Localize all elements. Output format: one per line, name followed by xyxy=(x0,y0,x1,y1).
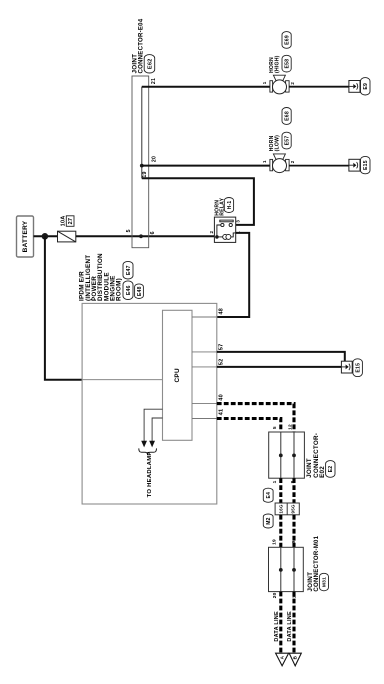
svg-text:9: 9 xyxy=(291,540,297,543)
horn relay H-1 box xyxy=(214,217,235,242)
label HORN (LOW) xyxy=(269,135,280,152)
svg-text:2: 2 xyxy=(209,230,214,233)
connector oval E15 xyxy=(361,156,371,173)
node E04 feed junction pin5-6 xyxy=(139,234,143,238)
wire battery to fuse xyxy=(34,235,58,237)
svg-text:CONNECTOR-E04: CONNECTOR-E04 xyxy=(139,18,145,73)
svg-text:(HIGH): (HIGH) xyxy=(274,55,280,73)
label IPDM E/R (INTELLIGENT POWER DISTRIBUTION MODULE ENGINE ROOM) xyxy=(79,253,123,301)
svg-text:19: 19 xyxy=(142,171,148,177)
svg-text:48: 48 xyxy=(218,308,224,315)
node relay pin2 junction xyxy=(215,235,219,239)
horn HIGH symbol xyxy=(270,75,289,94)
svg-text:12: 12 xyxy=(287,424,293,430)
svg-text:ROOM): ROOM) xyxy=(116,278,123,301)
brace to headlamp xyxy=(139,448,157,454)
node A off-page triangle xyxy=(276,653,289,666)
wire relay internal link xyxy=(217,225,221,237)
svg-text:95G: 95G xyxy=(291,504,296,513)
wire E02 to splice (CAN) 1 xyxy=(279,478,282,503)
svg-text:41: 41 xyxy=(218,409,224,416)
wire CPU to pin 52 xyxy=(192,366,217,368)
svg-text:A: A xyxy=(280,655,285,659)
svg-text:H-1: H-1 xyxy=(227,201,233,210)
wire CPU to pin 57 xyxy=(192,351,217,353)
wire splice to M01 (CAN) 1 xyxy=(279,515,282,548)
svg-text:21: 21 xyxy=(151,78,157,84)
svg-text:M2: M2 xyxy=(266,517,272,524)
label fuse number 27 xyxy=(66,216,74,227)
svg-text:E9: E9 xyxy=(363,83,369,90)
node E02 junction 1 xyxy=(279,454,283,458)
arrow to headlamp 1 xyxy=(141,441,147,448)
wire battery feed to IPDM xyxy=(45,236,82,379)
wire horn low to ground xyxy=(289,165,349,167)
svg-text:52: 52 xyxy=(218,359,224,366)
connector oval E62 xyxy=(144,55,155,73)
svg-text:(LOW): (LOW) xyxy=(274,135,280,152)
wire CPU to headlamp 1 xyxy=(144,409,162,441)
wire E02 internal 1 xyxy=(280,432,282,478)
svg-text:E15: E15 xyxy=(363,160,369,170)
wire E04 pin21 to horn high xyxy=(142,86,270,88)
relay contact bar xyxy=(220,220,233,222)
wire pin57 to ground xyxy=(217,352,345,367)
svg-text:E57: E57 xyxy=(284,136,290,146)
label HORN (HIGH) xyxy=(269,55,280,73)
connector oval E46 xyxy=(123,281,133,300)
wire M01 to data line A (CAN) xyxy=(279,592,282,654)
wire CPU to pin 41 xyxy=(192,418,217,420)
wire pin41 to E02 pin5 (CAN) xyxy=(217,419,281,433)
wire CPU to pin 48 xyxy=(192,316,217,318)
wire pin52 to ground xyxy=(217,366,342,368)
svg-text:2: 2 xyxy=(290,160,295,163)
label JOINT CONNECTOR-E02 xyxy=(306,433,326,478)
svg-text:E4: E4 xyxy=(266,492,272,499)
arrow to headlamp 2 xyxy=(149,441,155,448)
node M01 junction 2 xyxy=(292,568,296,572)
svg-text:1: 1 xyxy=(262,81,267,84)
svg-text:E48: E48 xyxy=(137,286,143,296)
svg-text:CPU: CPU xyxy=(174,368,181,382)
node battery junction xyxy=(42,233,49,240)
svg-text:CONNECTOR-M01: CONNECTOR-M01 xyxy=(314,535,320,591)
node B off-page triangle xyxy=(289,653,301,666)
svg-text:16G: 16G xyxy=(279,504,284,513)
connector oval H-1 xyxy=(224,198,233,213)
svg-text:6: 6 xyxy=(150,231,156,234)
svg-text:10A: 10A xyxy=(60,215,66,226)
connector oval E69 xyxy=(282,32,291,49)
node M01 junction 1 xyxy=(279,568,283,572)
node ground junction xyxy=(343,365,347,369)
svg-text:20: 20 xyxy=(272,592,278,598)
relay contact terminals xyxy=(221,223,233,226)
connector oval E15 IPDM ground xyxy=(353,359,363,377)
connector oval E48 xyxy=(135,284,144,299)
svg-text:E47: E47 xyxy=(126,265,132,275)
wire splice to M01 (CAN) 2 xyxy=(292,515,295,548)
wire E04 internal bus xyxy=(141,87,143,179)
svg-text:27: 27 xyxy=(68,218,74,225)
svg-text:E68: E68 xyxy=(284,111,290,121)
joint connector M01 box xyxy=(269,547,304,591)
svg-text:M31: M31 xyxy=(322,577,328,587)
connector oval E2 xyxy=(326,461,335,478)
svg-text:5: 5 xyxy=(126,229,132,232)
svg-text:57: 57 xyxy=(218,344,224,351)
joint connector E02 box xyxy=(269,432,305,478)
node E04 bus junction pin20 xyxy=(140,164,144,168)
connector oval E68 xyxy=(282,108,291,125)
wire horn high to ground xyxy=(289,86,349,88)
wire E02 internal 2 xyxy=(293,432,295,478)
wire CPU to pin 40 xyxy=(192,403,217,405)
fuse F 10A xyxy=(58,231,76,242)
relay coil xyxy=(217,233,236,240)
svg-text:E2: E2 xyxy=(328,466,334,473)
wire M01 to data line B (CAN) xyxy=(292,592,295,654)
svg-text:E15: E15 xyxy=(356,363,362,373)
connector oval E47 xyxy=(123,261,133,279)
svg-text:JOINT: JOINT xyxy=(306,458,313,478)
connector oval M2 xyxy=(263,514,273,528)
ground E15 IPDM xyxy=(341,361,352,373)
ground E9 xyxy=(349,81,360,93)
splice pin box 16G 95G xyxy=(275,503,299,515)
CPU box xyxy=(163,310,193,440)
wire M01 internal 2 xyxy=(293,547,295,591)
connector oval E57 xyxy=(282,132,291,149)
label JOINT CONNECTOR-M01 xyxy=(307,535,320,591)
horn LOW symbol xyxy=(270,154,289,173)
svg-text:3: 3 xyxy=(236,220,241,223)
wire relay pin1 to IPDM pin48 xyxy=(217,233,249,317)
node E02 junction 2 xyxy=(292,454,296,458)
svg-text:E69: E69 xyxy=(284,35,290,45)
svg-text:DATA LINE: DATA LINE xyxy=(287,611,293,642)
svg-text:B: B xyxy=(293,655,298,659)
wire M01 internal 1 xyxy=(280,547,282,591)
svg-text:2: 2 xyxy=(290,82,295,85)
connector oval E4 xyxy=(263,488,273,502)
wire CPU to headlamp 2 xyxy=(152,418,162,441)
svg-text:E62: E62 xyxy=(148,58,154,69)
wire E02 to splice (CAN) 2 xyxy=(292,478,295,503)
IPDM E/R box xyxy=(82,303,217,504)
wire E04 pin20 to horn low xyxy=(142,165,270,167)
battery xyxy=(17,216,34,257)
svg-text:19: 19 xyxy=(272,539,278,545)
svg-text:40: 40 xyxy=(218,394,224,401)
svg-text:BATTERY: BATTERY xyxy=(22,220,29,252)
label JOINT CONNECTOR-E04 xyxy=(131,18,144,73)
svg-text:E58: E58 xyxy=(284,59,290,69)
svg-text:1: 1 xyxy=(272,480,278,483)
wire E04 pin19 to relay pin3 xyxy=(142,178,254,225)
svg-text:DATA LINE: DATA LINE xyxy=(274,611,280,642)
svg-text:1: 1 xyxy=(262,160,267,163)
joint connector E04 box xyxy=(132,76,149,248)
svg-text:20: 20 xyxy=(152,156,158,162)
wire IPDM internal feed to CPU xyxy=(82,379,162,381)
connector oval E9 xyxy=(361,78,371,95)
label HORN RELAY xyxy=(214,197,225,215)
svg-text:E46: E46 xyxy=(126,285,132,295)
ground E15 horn low xyxy=(349,159,360,171)
connector oval M31 xyxy=(319,573,328,591)
wire fuse to horn relay pin 2 xyxy=(76,235,215,237)
wire pin40 to E02 pin12 (CAN) xyxy=(217,404,294,432)
svg-text:JOINT: JOINT xyxy=(131,54,138,74)
svg-text:TO HEADLAMP: TO HEADLAMP xyxy=(147,451,153,497)
svg-text:5: 5 xyxy=(272,426,278,429)
connector oval E58 xyxy=(282,55,291,72)
